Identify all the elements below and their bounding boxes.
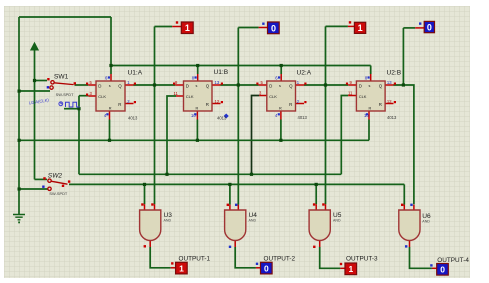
svg-text:Q: Q xyxy=(206,84,210,89)
svg-text:0: 0 xyxy=(271,23,276,33)
svg-text:AND: AND xyxy=(333,218,341,222)
svg-text:4013: 4013 xyxy=(387,115,397,120)
svg-text:SW-SPDT: SW-SPDT xyxy=(56,92,74,97)
svg-text:CLK: CLK xyxy=(359,94,367,99)
svg-text:s: s xyxy=(109,84,111,88)
svg-text:AND: AND xyxy=(164,218,172,222)
svg-text:s: s xyxy=(369,84,371,88)
svg-text:11: 11 xyxy=(348,91,353,96)
svg-text:0: 0 xyxy=(427,23,432,33)
svg-text:R: R xyxy=(369,107,372,111)
svg-text:AND: AND xyxy=(422,220,430,224)
svg-text:Q: Q xyxy=(379,84,383,89)
svg-text:11: 11 xyxy=(174,91,179,96)
svg-text:D: D xyxy=(98,84,101,89)
svg-text:D: D xyxy=(186,84,189,89)
svg-text:U1:A: U1:A xyxy=(128,70,143,77)
svg-text:CLK: CLK xyxy=(186,94,194,99)
svg-text:R: R xyxy=(118,102,121,107)
svg-text:SW-SPDT: SW-SPDT xyxy=(49,191,67,196)
svg-text:s: s xyxy=(279,84,281,88)
svg-text:R: R xyxy=(379,102,382,107)
svg-text:R: R xyxy=(109,107,112,111)
svg-text:D: D xyxy=(359,84,362,89)
svg-text:13: 13 xyxy=(215,80,220,85)
svg-text:U2:B: U2:B xyxy=(387,70,402,77)
svg-text:0: 0 xyxy=(264,264,269,274)
svg-text:OUTPUT-1: OUTPUT-1 xyxy=(179,256,211,263)
svg-text:12: 12 xyxy=(215,99,220,104)
svg-text:U1:B: U1:B xyxy=(214,69,229,76)
svg-text:Q: Q xyxy=(118,84,122,89)
svg-text:CLK: CLK xyxy=(269,94,277,99)
svg-text:4013: 4013 xyxy=(128,116,138,121)
svg-text:1: 1 xyxy=(185,23,190,33)
svg-text:SW1: SW1 xyxy=(54,74,69,81)
svg-text:R: R xyxy=(279,107,282,111)
svg-text:4013: 4013 xyxy=(298,115,308,120)
svg-text:4013: 4013 xyxy=(217,116,227,121)
svg-text:0: 0 xyxy=(440,265,445,275)
svg-text:13: 13 xyxy=(387,80,392,85)
svg-text:AND: AND xyxy=(249,218,257,222)
svg-text:OUTPUT-2: OUTPUT-2 xyxy=(264,256,296,263)
svg-text:OUTPUT-3: OUTPUT-3 xyxy=(346,256,378,263)
svg-text:1: 1 xyxy=(349,264,354,274)
svg-text:R: R xyxy=(206,102,209,107)
svg-text:R: R xyxy=(196,107,199,111)
svg-text:CLK: CLK xyxy=(98,94,106,99)
svg-text:1: 1 xyxy=(358,23,363,33)
svg-text:OUTPUT-4: OUTPUT-4 xyxy=(437,257,469,264)
svg-text:s: s xyxy=(196,84,198,88)
svg-text:U2:A: U2:A xyxy=(297,70,312,77)
svg-text:Q: Q xyxy=(289,84,293,89)
svg-text:D: D xyxy=(269,84,272,89)
svg-text:R: R xyxy=(289,102,292,107)
svg-text:1: 1 xyxy=(179,264,184,274)
svg-text:12: 12 xyxy=(387,99,392,104)
svg-text:SW2: SW2 xyxy=(48,173,63,180)
